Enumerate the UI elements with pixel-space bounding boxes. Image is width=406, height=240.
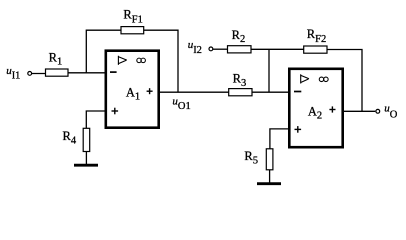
wire inverting node up to R_F1: [86, 30, 121, 73]
wire A2 output: [344, 110, 375, 112]
resistor R5: [244, 149, 273, 170]
ground (R5): [257, 182, 281, 185]
wire A2 noninverting input: [270, 129, 290, 149]
resistor R3: [229, 71, 252, 95]
ground (R4): [74, 164, 98, 167]
wire R4 to ground: [85, 152, 87, 165]
resistor R1: [46, 51, 69, 77]
wire summing node down to R3 node: [268, 49, 270, 92]
wire R_F2 to output node: [327, 50, 362, 112]
resistor R_F1: [121, 8, 144, 34]
wire u_I1 to A1 inverting input: [32, 72, 106, 75]
wire A1 noninverting input: [86, 111, 105, 128]
terminal u_O: [376, 109, 380, 113]
resistor R_F2: [304, 27, 327, 53]
wire R_F1 to A1 output: [144, 30, 178, 92]
wire R5 to ground: [269, 170, 271, 183]
terminal u_I2: [209, 47, 213, 51]
op-amp A1: [106, 51, 159, 128]
op-amp A2: [289, 69, 342, 147]
wire A1 output to A2 inverting input: [160, 91, 290, 93]
terminal u_I1: [28, 72, 32, 76]
resistor R4: [63, 128, 90, 151]
wire R2 to R_F2 summing node: [251, 48, 304, 50]
resistor R2: [228, 28, 252, 53]
wire u_I2 to R2: [213, 48, 228, 50]
